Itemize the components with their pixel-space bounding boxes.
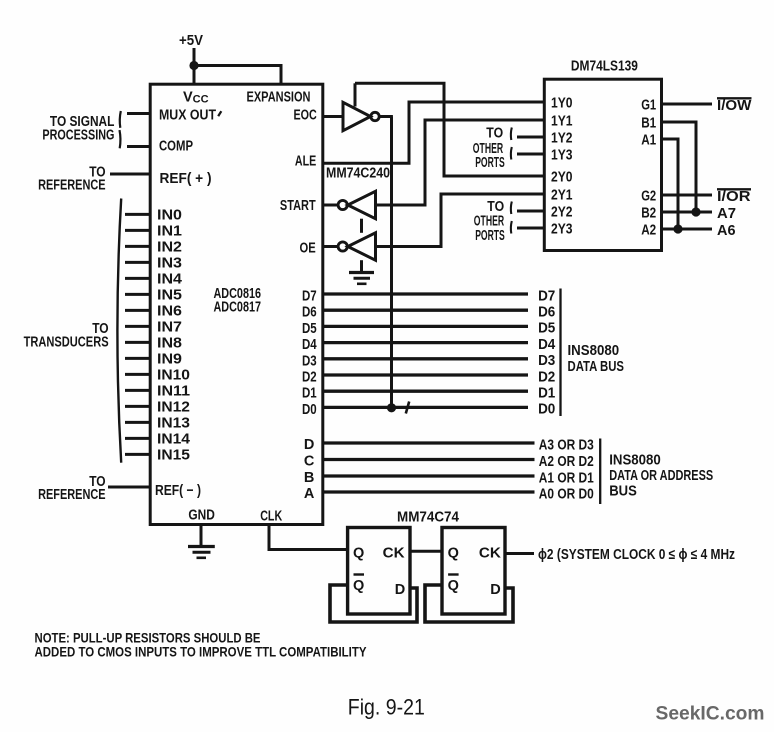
svg-text:CLK: CLK (260, 509, 282, 525)
svg-text:TRANSDUCERS: TRANSDUCERS (24, 335, 109, 351)
svg-text:OE: OE (300, 241, 316, 257)
svg-text:IN9: IN9 (157, 352, 182, 368)
svg-text:B: B (304, 470, 314, 486)
svg-text:D0: D0 (538, 402, 555, 418)
svg-text:COMP: COMP (159, 139, 193, 155)
svg-text:MM74C240: MM74C240 (326, 166, 390, 182)
svg-text:D4: D4 (538, 337, 555, 353)
svg-text:ϕ2 (SYSTEM CLOCK 0 ≤ ϕ ≤ 4 MHz: ϕ2 (SYSTEM CLOCK 0 ≤ ϕ ≤ 4 MHz (538, 547, 735, 563)
svg-text:IN14: IN14 (157, 432, 190, 448)
svg-text:IN11: IN11 (157, 384, 190, 400)
svg-text:A6: A6 (717, 223, 736, 239)
svg-text:TO: TO (486, 126, 503, 142)
svg-text:IN5: IN5 (157, 288, 182, 304)
svg-text:DATA BUS: DATA BUS (568, 359, 625, 375)
svg-text:G1: G1 (641, 98, 656, 114)
svg-text:D6: D6 (302, 305, 317, 321)
svg-text:EOC: EOC (294, 107, 318, 123)
svg-text:D5: D5 (538, 321, 555, 337)
svg-text:REF( − ): REF( − ) (155, 483, 201, 499)
svg-text:A0 OR D0: A0 OR D0 (539, 486, 594, 502)
svg-text:B1: B1 (641, 116, 656, 132)
svg-text:IN10: IN10 (157, 368, 190, 384)
svg-text:SeekIC.com: SeekIC.com (656, 703, 765, 725)
svg-text:IN6: IN6 (157, 304, 182, 320)
svg-text:D: D (395, 582, 405, 598)
svg-text:D1: D1 (538, 386, 555, 402)
svg-text:IN4: IN4 (157, 272, 182, 288)
svg-text:G2: G2 (641, 189, 656, 205)
svg-text:PORTS: PORTS (475, 155, 505, 171)
svg-text:D: D (490, 582, 500, 598)
svg-text:ALE: ALE (295, 154, 317, 170)
svg-text:CK: CK (479, 546, 502, 562)
svg-text:B2: B2 (641, 206, 656, 222)
svg-text:ADDED TO CMOS INPUTS TO IMPROV: ADDED TO CMOS INPUTS TO IMPROVE TTL COMP… (35, 644, 368, 660)
svg-text:D0: D0 (302, 402, 317, 418)
svg-text:A: A (304, 486, 315, 502)
svg-text:REFERENCE: REFERENCE (38, 487, 106, 503)
svg-text:EXPANSION: EXPANSION (247, 90, 311, 106)
svg-text:INS8080: INS8080 (568, 343, 620, 359)
svg-text:A2 OR D2: A2 OR D2 (539, 454, 594, 470)
svg-text:DATA OR ADDRESS: DATA OR ADDRESS (609, 468, 713, 484)
svg-text:D7: D7 (538, 288, 555, 304)
svg-text:D7: D7 (302, 289, 317, 305)
svg-text:IN7: IN7 (157, 320, 182, 336)
svg-text:TO: TO (487, 199, 504, 215)
svg-text:D2: D2 (538, 369, 555, 385)
svg-text:START: START (280, 198, 316, 214)
svg-text:A7: A7 (717, 206, 736, 222)
svg-text:CK: CK (383, 546, 406, 562)
svg-text:1Y0: 1Y0 (551, 96, 573, 112)
svg-text:I/OW: I/OW (717, 98, 752, 114)
svg-text:BUS: BUS (609, 484, 637, 500)
svg-text:2Y2: 2Y2 (551, 205, 573, 221)
svg-text:IN12: IN12 (157, 400, 190, 416)
svg-text:C: C (304, 454, 315, 470)
svg-text:A2: A2 (641, 223, 656, 239)
svg-text:1Y2: 1Y2 (551, 131, 573, 147)
svg-text:Fig. 9-21: Fig. 9-21 (348, 695, 425, 720)
svg-text:Q: Q (448, 578, 459, 594)
svg-text:IN15: IN15 (157, 448, 190, 464)
svg-text:ADC0817: ADC0817 (214, 300, 262, 316)
svg-text:Q: Q (353, 546, 364, 562)
svg-text:D3: D3 (538, 353, 555, 369)
svg-text:1Y1: 1Y1 (551, 114, 573, 130)
svg-text:MUX OUT: MUX OUT (159, 108, 216, 124)
svg-text:D3: D3 (302, 353, 317, 369)
svg-text:A3 OR D3: A3 OR D3 (539, 437, 594, 453)
svg-text:A1 OR D1: A1 OR D1 (539, 470, 594, 486)
svg-text:I/OR: I/OR (717, 189, 751, 205)
svg-text:DM74LS139: DM74LS139 (571, 59, 638, 75)
svg-text:D5: D5 (302, 321, 317, 337)
svg-text:D4: D4 (302, 337, 317, 353)
svg-text:D6: D6 (538, 305, 555, 321)
svg-text:IN13: IN13 (157, 416, 190, 432)
svg-text:REFERENCE: REFERENCE (38, 177, 106, 193)
svg-text:D2: D2 (302, 370, 317, 386)
svg-text:1Y3: 1Y3 (551, 148, 573, 164)
svg-text:2Y0: 2Y0 (551, 170, 573, 186)
svg-text:2Y1: 2Y1 (551, 188, 573, 204)
svg-text:IN3: IN3 (157, 256, 182, 272)
svg-text:REF( + ): REF( + ) (160, 171, 212, 187)
svg-text:MM74C74: MM74C74 (397, 510, 459, 526)
svg-text:Q: Q (353, 578, 364, 594)
svg-text:D: D (304, 437, 314, 453)
svg-text:PORTS: PORTS (475, 228, 505, 244)
svg-text:2Y3: 2Y3 (551, 222, 573, 238)
svg-text:IN8: IN8 (157, 336, 182, 352)
svg-text:GND: GND (188, 508, 215, 524)
svg-text:IN0: IN0 (157, 208, 182, 224)
svg-text:+5V: +5V (179, 33, 203, 49)
svg-text:PROCESSING: PROCESSING (42, 127, 114, 143)
svg-text:Q: Q (448, 546, 459, 562)
svg-text:INS8080: INS8080 (609, 453, 661, 469)
svg-text:A1: A1 (641, 133, 656, 149)
svg-text:IN2: IN2 (157, 240, 182, 256)
svg-text:D1: D1 (302, 386, 317, 402)
svg-text:IN1: IN1 (157, 224, 182, 240)
